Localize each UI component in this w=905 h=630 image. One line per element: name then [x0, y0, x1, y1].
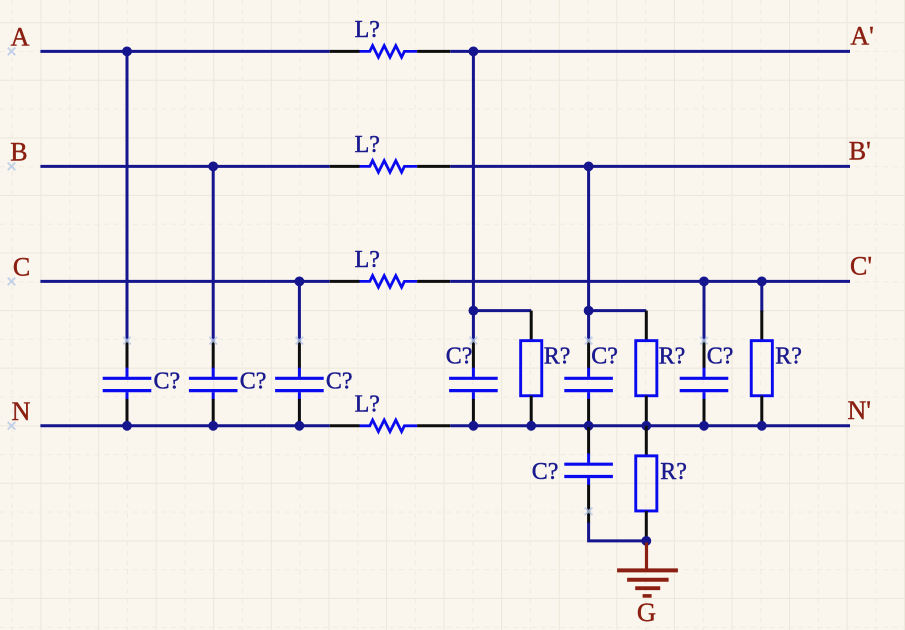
wire jog to R1: [473, 309, 531, 312]
svg-text:C': C': [850, 252, 872, 281]
junction on N bus at C5: [584, 421, 594, 431]
node marker at (127,340.6): [123, 337, 131, 345]
inductor L3 (in series with C): [330, 276, 450, 288]
svg-text:A': A': [850, 22, 873, 51]
junction on top bus at x=299.4: [295, 277, 305, 287]
junction on N bus at R1: [526, 421, 536, 431]
resistor R3: [751, 311, 772, 426]
svg-text:B: B: [10, 138, 27, 167]
inductor L2 (in series with B): [330, 161, 450, 173]
wire from C7 down and over to ground node: [587, 509, 590, 524]
svg-text:R?: R?: [544, 344, 571, 370]
node marker at (588.6,511.3): [585, 508, 593, 516]
junction on top bus at x=213.2: [208, 162, 218, 172]
junction on N bus at R2: [641, 421, 651, 431]
resistor R1: [521, 311, 542, 426]
junction on bus B at x=588: [584, 162, 594, 172]
junction on N bus at R3: [757, 421, 767, 431]
ground power port G: [617, 543, 678, 596]
junction on N bus at x=299.4: [295, 421, 305, 431]
wire B left segment: [40, 165, 329, 168]
wire from bus down to C1: [126, 51, 129, 341]
junction on N bus at x=213.2: [208, 421, 218, 431]
junction on N bus at C6: [699, 421, 709, 431]
node marker at (299.4,340.6): [296, 337, 304, 345]
junction for R2 branch: [584, 306, 594, 316]
wire from bus A down to C4: [472, 51, 475, 341]
svg-text:C: C: [13, 253, 30, 282]
wire A left segment: [40, 50, 329, 53]
svg-text:L?: L?: [355, 132, 380, 158]
capacitor C1: [103, 341, 152, 426]
wire A right segment: [450, 50, 850, 53]
svg-text:C?: C?: [446, 344, 473, 370]
node marker at (588.6,340.6): [585, 337, 593, 345]
capacitor C4: [449, 341, 498, 426]
node marker at (11.5,425.8): [8, 422, 16, 430]
svg-text:L?: L?: [355, 247, 380, 273]
inductor L1 (in series with A): [330, 46, 450, 58]
resistor R4 (below N bus): [636, 426, 657, 541]
wire B right segment: [450, 165, 850, 168]
junction on bus C at x=704: [699, 277, 709, 287]
svg-text:N': N': [848, 396, 871, 425]
junction on N bus at x=127: [122, 421, 132, 431]
wire N left segment: [40, 424, 329, 427]
wire stub from bus C down to R3: [760, 281, 763, 312]
resistor R2: [636, 311, 657, 426]
wire N right segment: [450, 424, 850, 427]
junction ground node: [641, 536, 651, 546]
junction on N bus at C4: [469, 421, 479, 431]
svg-text:R?: R?: [659, 344, 686, 370]
junction on bus C at x=762: [757, 277, 767, 287]
svg-text:C?: C?: [707, 344, 734, 370]
inductor L4 (in series with N): [330, 420, 450, 432]
svg-text:B': B': [849, 137, 871, 166]
svg-text:R?: R?: [660, 459, 687, 485]
svg-text:R?: R?: [775, 344, 802, 370]
svg-text:C?: C?: [154, 368, 181, 394]
node marker at (11.5,51.4): [8, 48, 16, 56]
svg-text:A: A: [11, 23, 30, 52]
svg-text:C?: C?: [532, 459, 559, 485]
node marker at (473.4,340.6): [470, 337, 478, 345]
node marker at (11.5,166.4): [8, 163, 16, 171]
capacitor C2: [189, 341, 238, 426]
svg-text:G: G: [637, 597, 656, 627]
wire from bus B down to C5: [587, 166, 590, 341]
wire from bus down to C3: [298, 281, 301, 341]
svg-text:L?: L?: [355, 392, 380, 418]
capacitor C5: [564, 341, 613, 426]
capacitor C7 (below N bus): [564, 427, 613, 512]
svg-text:L?: L?: [355, 17, 380, 43]
wire from bus C down to C6: [703, 281, 706, 341]
capacitor C6: [680, 341, 729, 426]
node marker at (213.2,340.6): [209, 337, 217, 345]
node marker at (11.5,281.4): [8, 278, 16, 286]
wire C right segment: [450, 280, 850, 283]
svg-text:C?: C?: [240, 368, 267, 394]
wire from bus down to C2: [212, 166, 215, 341]
junction on bus A at x=473: [469, 47, 479, 57]
node marker at (704,340.6): [700, 337, 708, 345]
wire jog to R2: [589, 309, 647, 312]
svg-text:C?: C?: [326, 368, 353, 394]
junction on top bus at x=127: [122, 47, 132, 57]
capacitor C3: [275, 341, 324, 426]
wire C left segment: [40, 280, 329, 283]
svg-text:C?: C?: [591, 344, 618, 370]
junction for R1 branch: [469, 306, 479, 316]
